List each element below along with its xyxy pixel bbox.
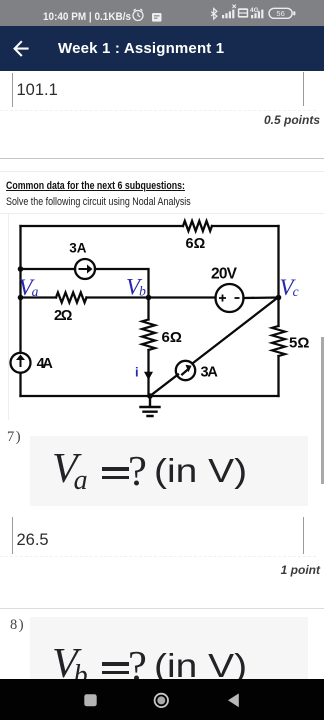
divider	[0, 608, 324, 609]
current source I2 4A circle	[11, 353, 31, 373]
resistor R3 5ohm vertical	[272, 326, 285, 356]
svg-text:20V: 20V	[211, 266, 238, 283]
arrow in I1	[79, 268, 88, 270]
plus sign in V1	[219, 295, 226, 302]
section 7	[7, 429, 22, 446]
input row 1	[12, 73, 13, 107]
svg-text:Va: Va	[19, 275, 39, 300]
status bar	[0, 0, 324, 26]
wire bottom	[21, 395, 279, 397]
wire Vb down	[147, 298, 149, 397]
app bar	[0, 26, 324, 71]
input row 2	[12, 517, 13, 554]
svg-text:3A: 3A	[201, 365, 219, 381]
wire left	[19, 226, 21, 396]
node ground junction dot	[147, 393, 153, 399]
node Vc dot	[276, 295, 282, 301]
minus sign in V1	[235, 297, 240, 299]
svg-text:4G: 4G	[250, 7, 259, 14]
resistor R-top 6ohm	[183, 221, 212, 231]
svg-text:Vb: Vb	[126, 275, 146, 300]
question text	[6, 180, 185, 192]
ground	[141, 396, 160, 416]
resistor R1 2ohm	[56, 293, 86, 303]
circuit image area	[0, 213, 324, 214]
svg-text:4A: 4A	[37, 356, 54, 372]
arrow in I3	[181, 369, 189, 376]
current source I3 3A circle on diagonal	[176, 361, 195, 380]
wire Vb-20V	[149, 296, 216, 298]
arrow in I2	[20, 358, 22, 367]
wire top	[21, 225, 279, 227]
node A dot	[18, 266, 24, 272]
wire 3A branch	[21, 269, 149, 298]
svg-text:6Ω: 6Ω	[186, 236, 206, 252]
current source I1 3A circle	[75, 259, 95, 279]
voltage source V1 20V circle	[216, 284, 244, 312]
nav bar	[0, 679, 324, 720]
svg-text:6Ω: 6Ω	[162, 329, 182, 346]
node Vb dot	[146, 295, 152, 301]
svg-text:3A: 3A	[69, 241, 86, 256]
arrow i on Vb branch	[144, 372, 153, 380]
wire Va-Vb	[21, 296, 149, 298]
scrollbar	[321, 337, 324, 484]
dividers	[0, 158, 324, 159]
resistor R2 6ohm vertical	[142, 320, 155, 350]
node Va dot	[18, 295, 24, 301]
svg-text:56: 56	[276, 9, 284, 18]
svg-text:2Ω: 2Ω	[54, 308, 73, 324]
diagonal wire Vc to ground	[150, 297, 279, 396]
svg-text:i: i	[135, 365, 139, 380]
svg-text:5Ω: 5Ω	[289, 335, 309, 352]
svg-text:Vc: Vc	[280, 275, 299, 300]
section 8	[10, 617, 25, 634]
wire right	[277, 226, 279, 396]
wire 20V-Vc	[244, 296, 279, 299]
